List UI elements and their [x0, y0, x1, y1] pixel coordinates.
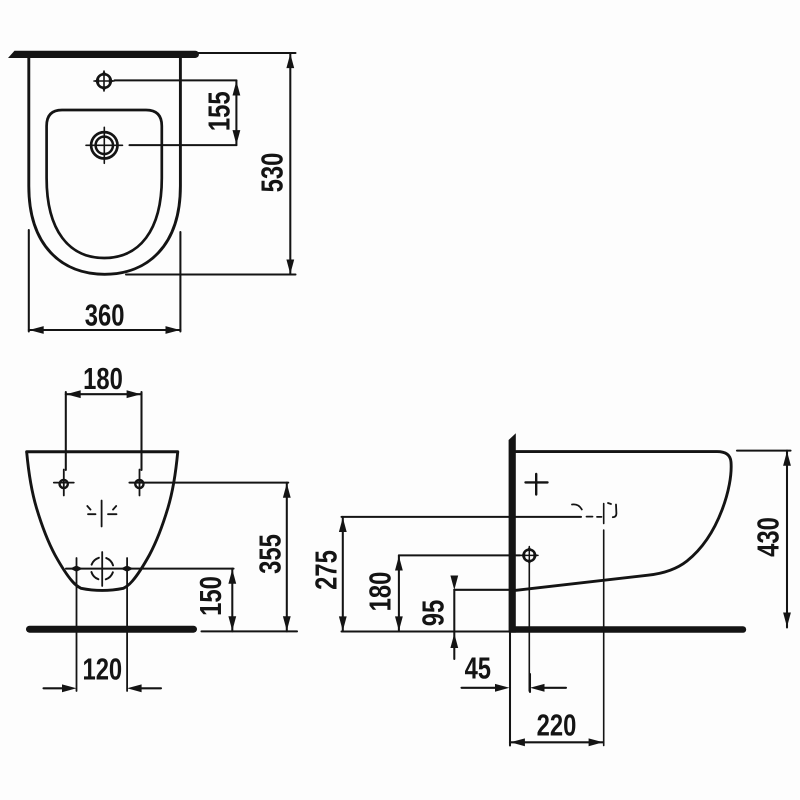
- extension line left for 180 dim: [65, 392, 67, 470]
- dimension 220 (line): [510, 741, 604, 743]
- dimension 275 arrow down: [339, 616, 347, 631]
- dimension 220 arrow right: [589, 738, 604, 746]
- dimension 180 arrow right: [127, 390, 142, 398]
- bidet inner rim (top view): [47, 110, 162, 258]
- dimension 150 (line): [231, 569, 233, 632]
- svg-text:150: 150: [194, 576, 228, 616]
- dimension 95 arrow (outside, points up): [450, 634, 458, 649]
- floor extension line left (side view): [342, 630, 510, 632]
- hidden tap hole (front view, dashed): [87, 501, 116, 527]
- dimension 95 arrow (outside, points down): [450, 576, 458, 591]
- extension line top for 430 dim: [737, 450, 791, 452]
- svg-text:430: 430: [752, 517, 786, 557]
- dimension 45 arrow (points right): [495, 684, 510, 692]
- dimension 355 (line): [286, 483, 288, 632]
- dimension 180 side (line): [398, 555, 400, 631]
- water inlet hole (side view, circle with ticks): [520, 546, 538, 565]
- dimension 275 arrow up: [339, 518, 347, 533]
- line from inlet hole down through floor: [528, 563, 530, 691]
- fixing hole right (front view cross): [135, 470, 143, 496]
- dimension 530 arrow up: [286, 54, 294, 69]
- dimension 530 arrow down: [286, 260, 294, 275]
- dimension 355 arrow down: [283, 616, 291, 631]
- extension line for 180 dim (inlet height, side view): [399, 554, 520, 556]
- dimension 430 arrow up: [783, 451, 791, 466]
- extension line from right fixing hole to 355 dim: [130, 482, 289, 484]
- dimension 360 (line): [29, 329, 181, 331]
- svg-text:220: 220: [537, 708, 577, 742]
- dimension 120 arrow (points right): [62, 684, 77, 692]
- extension line right for 180 dim: [140, 392, 142, 470]
- drain hole (front view, dashed circle): [91, 557, 114, 580]
- dimension 45 arrow (points left): [530, 684, 545, 692]
- extension line for 275 dim (tap hole height): [342, 516, 582, 518]
- drain pipe line left (through floor): [76, 558, 78, 691]
- fixing hole left (front view cross): [54, 470, 74, 496]
- svg-text:180: 180: [83, 362, 123, 396]
- bidet body top edge (front view): [27, 450, 178, 453]
- extension line from tap hole to 155 dim: [130, 144, 237, 146]
- wall line (top view, thick bar): [8, 51, 199, 58]
- svg-text:45: 45: [465, 651, 491, 685]
- dimension 360 arrow right: [166, 326, 181, 334]
- extension line from wall to 530 dim: [197, 52, 296, 54]
- extension line left for 360 dim: [28, 230, 30, 332]
- extension line from fixing hole to 155 dim: [115, 79, 237, 81]
- extension line for 95 dim (bidet underside height): [454, 589, 508, 591]
- svg-text:360: 360: [85, 299, 125, 333]
- extension line at bidet bottom for 530 dim: [126, 273, 296, 275]
- dimension 120 line right segment: [140, 687, 161, 689]
- floor line (front view, thick bar): [30, 626, 194, 633]
- dimension 275 (line): [342, 517, 344, 632]
- wall line (side view, thick bar): [509, 433, 516, 632]
- dimension 360 arrow left: [29, 326, 44, 334]
- dimension 150 arrow up: [228, 569, 236, 584]
- dimension 530 (line): [289, 54, 291, 274]
- fixing hole symbol (top view, small circle with ticks): [94, 70, 114, 92]
- bidet outer outline (top view): [29, 58, 181, 275]
- bidet profile (side view): [514, 452, 731, 591]
- fixing hole (side view, plus mark): [526, 474, 548, 495]
- dimension 180 side arrow down: [395, 616, 403, 631]
- dimension 120 arrow (points left): [127, 684, 142, 692]
- dimension 430 arrow down: [783, 613, 791, 628]
- floor extension line right (front view): [202, 630, 298, 632]
- dimension 155 arrow down: [232, 130, 240, 145]
- extension line below floor at wall for 45/220 dims: [509, 633, 511, 746]
- dimension 95 (line through floor): [453, 590, 455, 659]
- dimension 120 line left segment: [44, 687, 65, 689]
- dimension 45 line left segment: [462, 687, 498, 689]
- centerline of drain through floor (side view, to 220 dim): [603, 504, 605, 746]
- svg-text:95: 95: [417, 600, 451, 626]
- bowtie mark right on drain line: [121, 566, 134, 572]
- tap hole symbol (top view, double circle crosshair): [86, 127, 123, 163]
- dimension 180 line (front): [66, 393, 142, 395]
- dimension 155 arrow up: [232, 81, 240, 96]
- floor line (side view, thick bar): [509, 626, 746, 633]
- drain pipe line right (through floor): [126, 558, 128, 691]
- dimension 180 arrow left: [66, 390, 81, 398]
- svg-text:530: 530: [256, 153, 290, 193]
- dimension 220 arrow left: [510, 738, 525, 746]
- svg-text:180: 180: [364, 572, 398, 612]
- svg-text:120: 120: [82, 653, 122, 687]
- hidden tap hole (side view, dashed ellipse): [572, 503, 616, 517]
- dimension 150 arrow down: [228, 616, 236, 631]
- drain hole vertical centerline: [101, 552, 103, 586]
- bowtie mark left on drain line: [70, 566, 83, 572]
- extension line right for 360 dim: [179, 232, 181, 332]
- dimension 180 side arrow up: [395, 556, 403, 571]
- extension line below floor at inlet for 45 dim: [529, 674, 531, 692]
- bidet body outline (front view): [27, 452, 178, 590]
- dimension 45 line right segment: [543, 687, 567, 689]
- svg-text:155: 155: [203, 91, 237, 131]
- dimension 355 arrow up: [283, 483, 291, 498]
- svg-text:355: 355: [253, 534, 287, 574]
- dimension 155 (line): [235, 80, 237, 145]
- svg-text:275: 275: [310, 550, 344, 590]
- drain level line to 150 dim: [66, 568, 234, 570]
- dimension 430 (line): [786, 451, 788, 628]
